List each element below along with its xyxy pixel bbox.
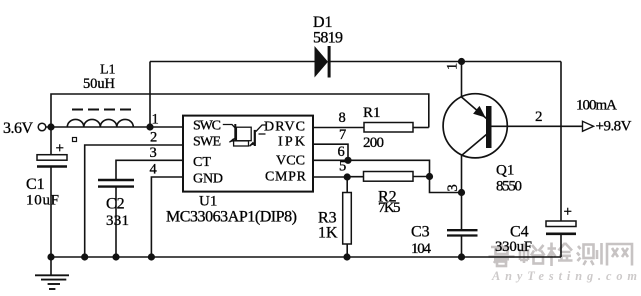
artifact tiny square: [73, 138, 77, 142]
svg-text:2: 2: [150, 130, 157, 146]
node: ground bus at C3: [458, 253, 465, 260]
wire: top rail from SWC riser to diode anode: [150, 61, 315, 63]
wire: Vin feed line y=94 from input node to R1 right riser: [51, 94, 429, 128]
svg-text:2: 2: [535, 109, 543, 125]
svg-text:3: 3: [150, 145, 157, 161]
svg-text:+: +: [564, 204, 572, 220]
svg-text:D1: D1: [313, 14, 333, 31]
node: top rail / Q1 emitter junction: [458, 58, 465, 65]
svg-text:330uF: 330uF: [495, 239, 532, 255]
ground: [35, 257, 69, 289]
output arrow terminal: [583, 121, 594, 131]
svg-text:331: 331: [106, 213, 129, 229]
node: pin5 divider junction: [344, 173, 351, 180]
svg-text:5819: 5819: [313, 30, 343, 47]
svg-text:C3: C3: [411, 224, 430, 241]
svg-text:100mA: 100mA: [576, 98, 617, 114]
node: ground bus at R3: [343, 253, 350, 260]
IC U1 box: [183, 116, 313, 192]
svg-text:1K: 1K: [318, 225, 338, 242]
svg-text:VCC: VCC: [276, 154, 305, 169]
wire: IC pin7 IPK jog to pin6 line: [313, 144, 348, 160]
svg-text:C4: C4: [510, 224, 529, 241]
diode D1: [315, 46, 331, 78]
svg-text:IPK: IPK: [278, 135, 305, 150]
node: ground bus at SWE: [81, 253, 88, 260]
node: ground bus at GND pin: [148, 253, 155, 260]
svg-text:+9.8V: +9.8V: [596, 119, 632, 135]
wire: R1 right lead: [413, 127, 429, 129]
wire: Q1 base to output: [492, 125, 583, 127]
svg-text:U1: U1: [199, 194, 217, 210]
node: pin6/pin7 junction: [344, 157, 351, 164]
svg-text:CMPR: CMPR: [265, 170, 307, 185]
node: ground bus at C2: [112, 253, 119, 260]
svg-text:R1: R1: [363, 105, 381, 121]
svg-text:SWC: SWC: [193, 119, 221, 134]
wire: IC pin6 VCC line to R2-right riser: [313, 160, 430, 176]
svg-text:7K5: 7K5: [378, 200, 401, 216]
svg-text:MC33063AP1(DIP8): MC33063AP1(DIP8): [166, 209, 297, 226]
svg-text:C1: C1: [26, 176, 45, 193]
svg-text:3.6V: 3.6V: [3, 120, 33, 137]
svg-text:C2: C2: [106, 196, 125, 213]
wire: right rail down to C4: [560, 62, 562, 222]
wire: IC pin8 DRVC to R1: [313, 127, 364, 129]
wire: IC pin2 SWE to ground riser: [85, 145, 183, 257]
node: ground bus at C1: [47, 253, 54, 260]
wire: IC pin4 GND to ground riser: [151, 177, 183, 257]
node: L1 / pin1 junction: [146, 123, 153, 130]
svg-text:4: 4: [150, 162, 158, 178]
node: Q1 collector junction: [458, 189, 465, 196]
wire: riser x=150 from top rail down to L1/pin1 node: [149, 62, 151, 128]
capacitor C4: [546, 221, 576, 257]
svg-text:200: 200: [363, 135, 384, 151]
svg-text:50uH: 50uH: [83, 76, 116, 92]
svg-text:Q1: Q1: [496, 163, 514, 179]
resistor R1: [364, 123, 413, 133]
IC internal darlington switch: [223, 124, 267, 146]
capacitor C2: [98, 180, 134, 257]
svg-text:SWE: SWE: [193, 135, 221, 150]
capacitor C1: [37, 127, 67, 257]
resistor R2: [347, 172, 429, 182]
terminal: 3.6V input: [38, 123, 46, 131]
watermark chinese characters: [489, 243, 633, 267]
svg-text:104: 104: [411, 241, 432, 257]
inductor L1: [67, 110, 133, 128]
svg-text:10uF: 10uF: [26, 193, 59, 209]
wire: R2-right riser down to collector node: [430, 177, 462, 193]
wire: main input wire y=127 from terminal to IC pin1: [46, 126, 183, 128]
transistor Q1: [443, 62, 507, 193]
node: input junction: [47, 123, 54, 130]
wire: IC pin5 CMPR to divider node: [313, 176, 347, 178]
wire: IC pin3 CT to C2: [116, 160, 183, 179]
svg-text:8550: 8550: [496, 179, 522, 195]
svg-text:8: 8: [339, 110, 346, 126]
svg-text:1: 1: [445, 63, 461, 70]
svg-text:CT: CT: [193, 155, 211, 170]
capacitor C3: [447, 193, 478, 258]
wire: ground bus: [51, 256, 561, 258]
svg-text:7: 7: [339, 127, 346, 143]
resistor R3: [343, 177, 352, 257]
svg-text:DRVC: DRVC: [264, 120, 305, 135]
wire: top rail from diode cathode to right rail corner: [331, 61, 562, 63]
svg-text:+: +: [56, 141, 64, 157]
node: R2 right junction: [426, 173, 433, 180]
svg-text:GND: GND: [193, 172, 223, 187]
